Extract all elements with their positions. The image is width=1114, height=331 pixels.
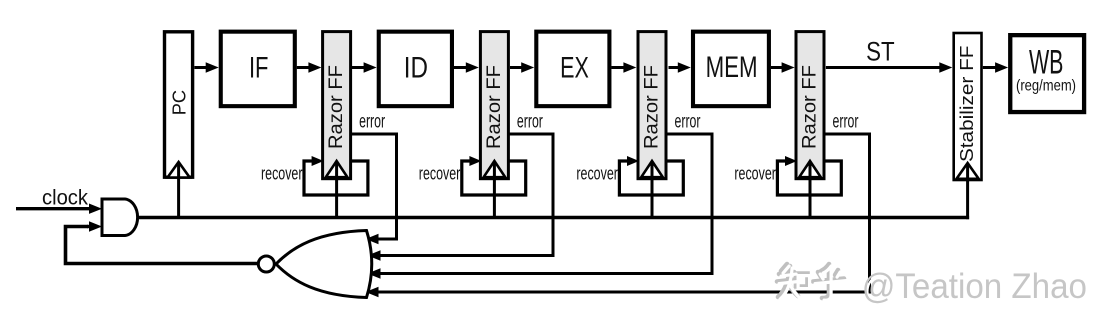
svg-text:Razor FF: Razor FF <box>326 65 347 149</box>
wire error1 from Razor FF1 to NOR input <box>351 134 397 244</box>
svg-text:Razor FF: Razor FF <box>642 65 663 149</box>
wire clock to FF3 <box>651 163 654 218</box>
Razor FF 1 clock chevron <box>326 161 348 177</box>
wire clock to FF1 <box>335 163 338 218</box>
recover label FF2 <box>419 164 461 184</box>
svg-text:PC: PC <box>170 90 190 115</box>
wire clock to FF4 <box>809 163 812 218</box>
wire PC to IF <box>194 62 218 72</box>
wire gated clock rail <box>138 216 970 219</box>
wire Razor FF3 to MEM <box>669 62 691 72</box>
svg-text:ID: ID <box>404 52 428 85</box>
recover label FF4 <box>734 164 776 184</box>
pipeline stage EX <box>536 32 609 107</box>
svg-text:WB: WB <box>1029 44 1064 82</box>
wire clock to PC <box>177 163 180 218</box>
wire error3 from Razor FF3 to NOR input <box>368 134 713 279</box>
wire recover loop FF1 <box>304 156 368 195</box>
svg-text:recover: recover <box>261 164 303 184</box>
wire clock input <box>16 204 102 214</box>
wire Stabilizer FF to WB <box>983 62 1008 72</box>
svg-text:Razor FF: Razor FF <box>484 65 505 149</box>
error label FF1 <box>359 112 385 133</box>
wire Razor FF1 to ID <box>352 62 377 72</box>
register PC <box>165 32 193 177</box>
wire recover loop FF2 <box>462 156 526 195</box>
svg-text:ST: ST <box>866 36 895 66</box>
svg-text:MEM: MEM <box>706 51 758 84</box>
clock label <box>42 186 88 210</box>
Razor FF 4 clock chevron <box>799 161 821 177</box>
AND gate U1 (clock gating) <box>102 199 138 236</box>
error label FF3 <box>675 112 701 133</box>
wire recover loop FF3 <box>619 156 683 195</box>
Razor FF 3 <box>638 32 666 179</box>
Stabilizer FF clock chevron <box>957 163 979 179</box>
svg-text:Razor FF: Razor FF <box>800 65 821 149</box>
Stabilizer FF <box>954 33 982 180</box>
Razor FF 2 clock chevron <box>484 161 506 177</box>
recover label FF1 <box>261 164 303 184</box>
pipeline stage IF <box>221 32 295 107</box>
svg-text:recover: recover <box>576 164 618 184</box>
pipeline stage ID <box>379 32 452 107</box>
svg-text:error: error <box>359 112 385 133</box>
watermark 知乎 @Teation Zhao <box>777 264 844 298</box>
svg-text:IF: IF <box>249 52 269 85</box>
svg-text:error: error <box>833 112 859 133</box>
wire MEM to Razor FF4 <box>771 62 795 72</box>
svg-text:error: error <box>517 112 543 133</box>
wire recover loop FF4 <box>777 156 841 195</box>
svg-text:@Teation Zhao: @Teation Zhao <box>862 267 1087 306</box>
PC clock chevron <box>168 162 190 178</box>
wire clock to FF2 <box>493 163 496 218</box>
wire ID to Razor FF2 <box>454 62 479 72</box>
wire clock to Stabilizer FF <box>966 165 969 220</box>
svg-text:recover: recover <box>419 164 461 184</box>
NOR gate U2 (error OR, mirrored, bubble on output) <box>258 231 371 298</box>
wire NOR output feedback to AND gate <box>66 221 261 263</box>
svg-text:(reg/mem): (reg/mem) <box>1016 78 1076 95</box>
Razor FF 1 <box>323 32 351 179</box>
svg-text:recover: recover <box>734 164 776 184</box>
Razor FF 3 clock chevron <box>641 161 663 177</box>
wire error2 from Razor FF2 to NOR input <box>368 134 554 261</box>
recover label FF3 <box>576 164 618 184</box>
wire error4 from Razor FF4 to NOR input <box>366 134 870 297</box>
svg-text:error: error <box>675 112 701 133</box>
net label ST <box>866 36 895 66</box>
error label FF4 <box>833 112 859 133</box>
Razor FF 2 <box>480 32 508 179</box>
Razor FF 4 <box>796 32 824 179</box>
svg-text:Stabilizer FF: Stabilizer FF <box>956 46 977 163</box>
error label FF2 <box>517 112 543 133</box>
wire EX to Razor FF3 <box>611 62 636 72</box>
wire Razor FF2 to EX <box>510 62 534 72</box>
wire Razor FF4 to Stabilizer FF (ST) <box>826 62 952 72</box>
pipeline stage MEM <box>693 32 769 107</box>
pipeline stage WB (reg/mem) <box>1010 35 1084 112</box>
svg-text:clock: clock <box>42 186 88 210</box>
svg-text:EX: EX <box>560 52 589 85</box>
wire IF to Razor FF1 <box>297 62 322 72</box>
